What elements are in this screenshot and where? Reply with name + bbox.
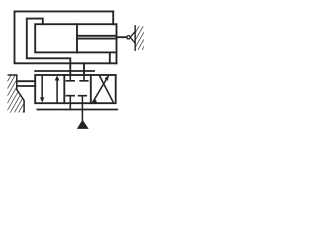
wire rod link to anchor xyxy=(117,36,127,38)
crossed line descending in right square xyxy=(100,76,113,102)
blocked port T top A xyxy=(66,75,74,81)
blocked port T bottom P xyxy=(79,96,87,120)
fixed wall right hatch xyxy=(136,26,144,50)
up arrow in left valve square xyxy=(56,79,58,103)
valve position divider 1 xyxy=(63,75,65,103)
arrowhead X top right xyxy=(105,76,109,81)
wire bottom port rail xyxy=(37,109,117,111)
wire table loop pipe (outer: top, left, bottom) xyxy=(15,11,117,63)
valve plunger actuator xyxy=(17,81,35,86)
piston xyxy=(76,24,78,52)
blocked port T bottom T xyxy=(66,96,74,110)
valve position divider 2 xyxy=(90,75,92,103)
pipe B drop to valve port xyxy=(83,63,85,75)
fixed wall left hatched wedge xyxy=(8,75,25,113)
mount stub under cylinder xyxy=(109,52,111,63)
crossed arrow ascending in right square xyxy=(93,76,108,102)
rod pivot circle xyxy=(127,36,130,39)
pipe A (piston side to valve port) xyxy=(27,19,71,75)
valve body U1 xyxy=(35,75,116,103)
wire step-down connector at top right xyxy=(112,11,114,24)
blocked port T top B xyxy=(80,75,88,81)
down arrow in left valve square xyxy=(41,75,43,99)
cylinder barrel xyxy=(35,24,116,52)
arrowhead up arrow xyxy=(55,75,60,80)
wire top port rail xyxy=(35,70,94,72)
wire cylinder right edge extension xyxy=(116,52,118,63)
arrowhead X bottom left xyxy=(93,99,97,103)
fixed wall right xyxy=(134,26,136,50)
anchor triangle xyxy=(130,31,135,43)
piston rod xyxy=(77,36,117,39)
pressure source triangle xyxy=(77,120,89,129)
arrowhead down arrow xyxy=(40,97,44,102)
